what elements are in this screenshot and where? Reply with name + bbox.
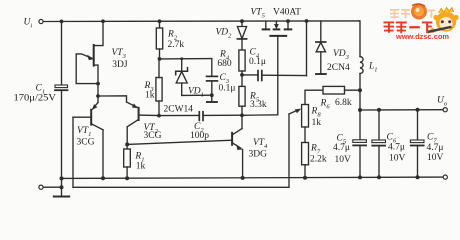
- capacitor C1: [55, 85, 68, 90]
- node Ui input terminal: [39, 19, 43, 23]
- svg-text:0.1μ: 0.1μ: [249, 57, 266, 67]
- svg-text:4.7μ: 4.7μ: [427, 143, 444, 153]
- svg-text:VT5: VT5: [251, 8, 266, 20]
- zener diode VD1: [176, 57, 188, 95]
- capacitor C3: [207, 59, 218, 96]
- transistor VT3 (JFET): [76, 21, 103, 96]
- node R1 bottom junction: [125, 176, 129, 180]
- node C6 top junction: [377, 108, 381, 112]
- capacitor C5: [353, 110, 367, 177]
- svg-text:VT1: VT1: [77, 126, 91, 138]
- node VD2 top junction: [240, 19, 244, 23]
- ground C3 local: [207, 95, 217, 102]
- wire C1 column: [61, 21, 63, 187]
- node emitters junction: [96, 94, 100, 98]
- transistor VT5 (VMOS): [242, 21, 291, 115]
- node Uo terminal: [443, 108, 447, 112]
- node ground rail left junction: [60, 176, 64, 180]
- node VT3 drain junction: [101, 19, 105, 23]
- resistor R7: [302, 143, 309, 178]
- wire ground rail: [62, 177, 446, 178]
- wire VD1 to C3 ground: [182, 94, 212, 96]
- svg-text:V40AT: V40AT: [273, 8, 301, 18]
- svg-text:2.7k: 2.7k: [168, 40, 185, 50]
- watermark dzsc logo: [384, 4, 459, 41]
- svg-text:VD2: VD2: [216, 28, 233, 40]
- node VT2 base junction: [157, 114, 161, 118]
- resistor R1: [124, 144, 131, 178]
- svg-text:1k: 1k: [145, 91, 155, 101]
- resistor R4: [239, 50, 245, 75]
- resistor R2: [156, 21, 162, 59]
- transistor VT1: [73, 96, 103, 178]
- svg-text:Ui: Ui: [24, 18, 33, 30]
- svg-text:6.8k: 6.8k: [335, 98, 352, 108]
- resistor R6: [305, 86, 360, 104]
- svg-text:10V: 10V: [335, 155, 352, 165]
- svg-text:4.7μ: 4.7μ: [333, 143, 350, 153]
- svg-text:3CG: 3CG: [144, 131, 162, 141]
- capacitor C2: [159, 112, 242, 121]
- svg-text:3DJ: 3DJ: [112, 60, 128, 70]
- node input bottom junction: [60, 185, 64, 189]
- svg-text:VT4: VT4: [253, 138, 268, 150]
- svg-text:0.1μ: 0.1μ: [219, 84, 236, 94]
- resistor R3: [156, 59, 162, 116]
- diode VD2: [237, 21, 246, 50]
- node C3 bottom junction: [210, 93, 214, 97]
- node C5 bottom junction: [358, 175, 362, 179]
- svg-text:10V: 10V: [427, 153, 444, 163]
- node R5 bottom junction: [240, 113, 244, 117]
- wire C4 to rail: [306, 21, 308, 76]
- node C7 bottom junction: [416, 175, 420, 179]
- ground: [54, 187, 69, 196]
- svg-text:3CG: 3CG: [77, 138, 95, 148]
- node output rail left junction: [358, 108, 362, 112]
- inductor L1: [359, 21, 363, 110]
- node output minus terminal: [443, 175, 447, 179]
- svg-text:L1: L1: [368, 62, 378, 74]
- node C4 branch junction: [305, 19, 309, 23]
- node R7 bottom junction: [303, 176, 307, 180]
- capacitor C7: [410, 110, 424, 177]
- node R2 top junction: [158, 19, 162, 23]
- wire output rail: [360, 109, 443, 111]
- node R4 R5 C4 junction: [240, 73, 244, 77]
- node VT1 collector junction: [101, 176, 105, 180]
- node VT2 collector junction: [125, 142, 129, 146]
- node VT5 source junction: [286, 19, 290, 23]
- wire emitter branch: [98, 96, 127, 102]
- diode VD3: [316, 21, 326, 74]
- wire feedback rail: [73, 114, 289, 187]
- node R6 right junction: [358, 88, 362, 92]
- svg-text:3.3k: 3.3k: [250, 100, 267, 110]
- node VT3 gate-source junction: [96, 82, 100, 86]
- capacitor C4: [242, 71, 307, 81]
- node input minus terminal: [39, 185, 43, 189]
- transistor VT4: [232, 115, 243, 178]
- wire VT2 collector to VT4 base: [127, 140, 232, 144]
- node C7 top junction: [416, 108, 420, 112]
- schematic text labels: [14, 8, 448, 172]
- svg-text:VT3: VT3: [112, 48, 127, 60]
- svg-text:1k: 1k: [136, 161, 146, 171]
- svg-text:3DG: 3DG: [249, 149, 268, 159]
- svg-text:VD1: VD1: [188, 87, 204, 99]
- svg-text:10V: 10V: [389, 154, 406, 164]
- svg-text:680: 680: [217, 59, 232, 69]
- node C6 bottom junction: [377, 175, 381, 179]
- potentiometer R8: [289, 105, 309, 143]
- resistor R5: [239, 75, 245, 115]
- svg-text:www.dzsc.com: www.dzsc.com: [395, 32, 449, 41]
- svg-text:1k: 1k: [312, 118, 322, 128]
- node VT4 emitter junction: [241, 176, 245, 180]
- svg-text:R6: R6: [320, 98, 331, 110]
- svg-text:100p: 100p: [190, 131, 209, 141]
- svg-text:Uo: Uo: [437, 96, 448, 108]
- svg-text:2.2k: 2.2k: [310, 155, 327, 165]
- svg-text:170μ/25V: 170μ/25V: [14, 94, 57, 104]
- wire R2 to C3: [160, 58, 212, 60]
- svg-text:2CN4: 2CN4: [327, 63, 350, 73]
- wire bottom input lead: [43, 186, 61, 188]
- wire top rail: [43, 20, 359, 23]
- capacitor C6: [372, 110, 386, 177]
- transistor VT2: [127, 102, 160, 144]
- node R2 bottom junction: [158, 57, 162, 61]
- svg-text:2CW14: 2CW14: [164, 105, 194, 115]
- svg-text:VD3: VD3: [333, 49, 350, 61]
- svg-text:4.7μ: 4.7μ: [388, 143, 405, 153]
- node C1 top junction: [60, 20, 64, 24]
